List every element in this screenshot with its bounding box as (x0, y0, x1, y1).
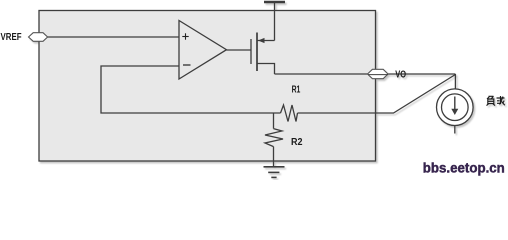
wire R1 to load (with diagonal) (298, 75, 456, 114)
svg-text:R2: R2 (291, 137, 303, 148)
op-amp - input marker (183, 64, 191, 66)
resistor R2 (265, 129, 283, 147)
port VO (368, 69, 389, 78)
svg-text:VREF: VREF (1, 32, 22, 43)
main block (regulator body) (39, 11, 376, 162)
current source load (437, 89, 474, 134)
wire through VO port (368, 74, 388, 76)
transistor Q1 PMOS pass device (251, 33, 275, 75)
wire drain to VO output (275, 73, 456, 75)
label 负载 (load) (487, 96, 505, 106)
port VREF (29, 33, 48, 42)
wire VREF to op-amp non-inverting input (44, 36, 179, 38)
wire op-amp output to gate (227, 49, 252, 51)
wire node to R2 (273, 113, 275, 129)
svg-text:R1: R1 (292, 85, 301, 96)
svg-text:VO: VO (395, 69, 406, 80)
wire R2 to ground (273, 147, 275, 167)
op-amp + input marker (182, 33, 188, 39)
wire feedback (inverting input to R1/R2 node) (101, 66, 281, 113)
svg-text:bbs.eetop.cn: bbs.eetop.cn (423, 161, 505, 176)
resistor R1 (281, 105, 298, 122)
ground (264, 167, 285, 178)
op-amp U1 (179, 21, 227, 80)
wire VO corner down to load (454, 74, 456, 89)
power rail VDD (264, 2, 285, 41)
